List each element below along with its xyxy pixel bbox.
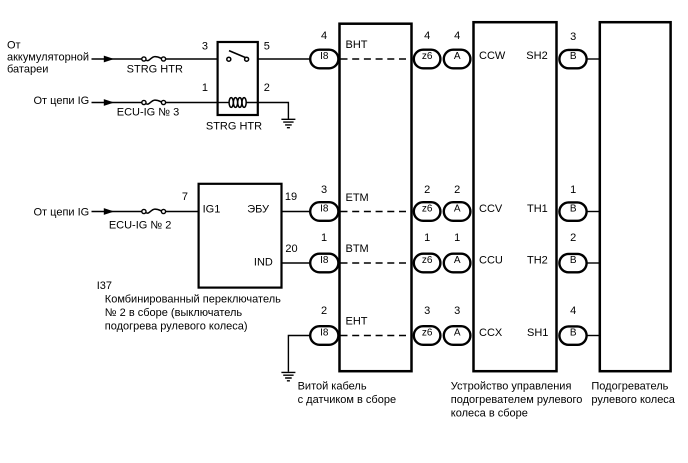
wire: fuse ECU-IG No3 to relay pin 1 xyxy=(166,102,217,104)
wire: fuse ECU-IG No2 to switch pin 7 xyxy=(166,211,199,213)
svg-text:подогревателем рулевого: подогревателем рулевого xyxy=(451,394,583,406)
node: battery feed label xyxy=(7,39,89,75)
wire: IG feed to fuse ECU-IG No2 xyxy=(92,211,142,213)
svg-text:19: 19 xyxy=(285,191,297,203)
svg-text:TH1: TH1 xyxy=(527,203,548,215)
svg-text:1: 1 xyxy=(202,82,208,94)
connector I8 pin 1 xyxy=(310,254,338,273)
svg-text:CCV: CCV xyxy=(479,203,503,215)
svg-text:2: 2 xyxy=(454,184,460,196)
box: twisted cable with sensor assembly xyxy=(340,24,412,372)
wire: switch pin 19 to connector I8 pin 3 xyxy=(282,211,310,213)
connector I8 pin 3 xyxy=(310,202,338,221)
svg-text:1: 1 xyxy=(424,232,430,244)
svg-text:I8: I8 xyxy=(320,328,329,339)
svg-text:B: B xyxy=(570,204,577,215)
label: twisted cable caption xyxy=(298,380,397,406)
fuse STRG HTR xyxy=(142,57,166,62)
svg-text:SH2: SH2 xyxy=(526,50,547,62)
label: combination switch caption xyxy=(105,293,281,332)
svg-text:z6: z6 xyxy=(422,51,433,62)
wire: B pin2 to heater box xyxy=(588,262,600,264)
svg-text:Устройство управления: Устройство управления xyxy=(451,381,572,393)
svg-text:z6: z6 xyxy=(422,204,433,215)
svg-text:CCW: CCW xyxy=(479,50,506,62)
connector I8 pin 2 xyxy=(310,326,338,345)
connector B pin 1 xyxy=(559,202,586,220)
wire: coil row inside relay xyxy=(217,102,229,104)
svg-text:№ 2 в сборе (выключатель: № 2 в сборе (выключатель xyxy=(105,307,243,319)
connector z6 pin 4 xyxy=(414,50,441,69)
svg-text:3: 3 xyxy=(454,305,460,317)
svg-text:BHT: BHT xyxy=(346,39,368,51)
svg-text:I37: I37 xyxy=(97,280,112,292)
connector A pin 4 xyxy=(444,50,471,69)
connector B pin 2 xyxy=(559,254,586,272)
svg-text:1: 1 xyxy=(321,232,327,244)
connector z6 pin 2 xyxy=(414,202,441,221)
arrow: IG feed direction xyxy=(104,208,114,215)
wire: ground to connector I8 pin 2 xyxy=(288,336,310,372)
wire: switch pin 20 to connector I8 pin 1 xyxy=(282,262,310,264)
svg-text:I8: I8 xyxy=(320,51,329,62)
svg-text:B: B xyxy=(570,51,577,62)
svg-text:B: B xyxy=(570,328,577,339)
svg-text:4: 4 xyxy=(570,305,576,317)
connector A pin 2 xyxy=(444,202,471,221)
fuse ECU-IG No2 xyxy=(142,209,166,214)
svg-text:подогрева рулевого колеса): подогрева рулевого колеса) xyxy=(105,320,248,332)
svg-text:CCU: CCU xyxy=(479,255,503,267)
wire: IG feed to fuse ECU-IG No3 xyxy=(92,102,142,104)
svg-text:От цепи IG: От цепи IG xyxy=(34,206,90,218)
connector A pin 3 xyxy=(444,326,471,345)
wire: B pin4 to heater box xyxy=(588,335,600,337)
svg-text:I8: I8 xyxy=(320,204,329,215)
arrow: battery feed direction xyxy=(104,56,114,63)
svg-text:z6: z6 xyxy=(422,255,433,266)
svg-text:7: 7 xyxy=(182,191,188,203)
svg-text:IND: IND xyxy=(254,256,273,268)
connector I8 pin 4 xyxy=(310,50,338,69)
svg-text:рулевого колеса: рулевого колеса xyxy=(591,394,675,406)
svg-text:TH2: TH2 xyxy=(527,255,548,267)
svg-text:B: B xyxy=(570,255,577,266)
svg-text:IG1: IG1 xyxy=(203,204,221,216)
svg-text:ETM: ETM xyxy=(346,192,369,204)
svg-text:2: 2 xyxy=(264,82,270,94)
svg-text:A: A xyxy=(454,255,461,266)
wire: EHT dashed (twisted cable) xyxy=(341,335,413,337)
label: control unit caption xyxy=(451,381,583,420)
svg-text:I8: I8 xyxy=(320,255,329,266)
svg-text:4: 4 xyxy=(321,30,327,42)
wire: relay pin 2 to ground xyxy=(246,103,289,119)
coil (relay winding) xyxy=(229,98,246,108)
connector z6 pin 3 xyxy=(414,326,441,345)
box: steering wheel heater xyxy=(600,22,671,371)
svg-text:3: 3 xyxy=(321,184,327,196)
svg-text:EHT: EHT xyxy=(346,316,368,328)
wire: relay pin 5 to connector I8 pin 4 xyxy=(258,58,310,60)
box: steering heater control unit assembly xyxy=(474,22,557,371)
switch contact (relay) xyxy=(227,51,249,62)
connector A pin 1 xyxy=(444,254,471,273)
svg-text:STRG HTR: STRG HTR xyxy=(206,121,262,133)
svg-text:A: A xyxy=(454,204,461,215)
svg-text:ECU-IG № 2: ECU-IG № 2 xyxy=(109,219,172,231)
svg-text:STRG HTR: STRG HTR xyxy=(127,64,183,76)
svg-text:ECU-IG № 3: ECU-IG № 3 xyxy=(117,107,180,119)
svg-text:20: 20 xyxy=(285,243,297,255)
ground (EHT shield) xyxy=(281,372,295,380)
svg-text:Витой кабель: Витой кабель xyxy=(298,380,367,392)
connector B pin 3 xyxy=(559,50,586,68)
svg-text:От цепи IG: От цепи IG xyxy=(34,95,90,107)
wire: B pin1 to heater box xyxy=(588,211,600,213)
wire: battery feed to fuse STRG HTR xyxy=(92,58,142,60)
svg-text:1: 1 xyxy=(570,184,576,196)
svg-text:Подогреватель: Подогреватель xyxy=(591,381,668,393)
svg-text:3: 3 xyxy=(202,41,208,53)
svg-text:2: 2 xyxy=(424,184,430,196)
label: heater caption xyxy=(591,381,675,407)
svg-text:3: 3 xyxy=(424,305,430,317)
svg-text:5: 5 xyxy=(264,41,270,53)
wire: ETM dashed (twisted cable) xyxy=(341,211,413,213)
svg-text:аккумуляторной: аккумуляторной xyxy=(7,51,89,63)
switch I37 (combination switch box) xyxy=(199,184,282,288)
svg-text:Комбинированный переключатель: Комбинированный переключатель xyxy=(105,293,281,305)
svg-text:z6: z6 xyxy=(422,328,433,339)
svg-text:От: От xyxy=(7,39,21,51)
svg-text:1: 1 xyxy=(454,232,460,244)
arrow: IG feed direction xyxy=(104,99,114,106)
svg-text:4: 4 xyxy=(454,30,460,42)
svg-text:A: A xyxy=(454,51,461,62)
connector z6 pin 1 xyxy=(414,254,441,273)
svg-text:CCX: CCX xyxy=(479,327,503,339)
svg-text:с датчиком в сборе: с датчиком в сборе xyxy=(298,394,397,406)
svg-text:ЭБУ: ЭБУ xyxy=(247,204,270,216)
svg-text:3: 3 xyxy=(570,31,576,43)
svg-text:A: A xyxy=(454,328,461,339)
svg-text:колеса в сборе: колеса в сборе xyxy=(451,408,528,420)
svg-text:4: 4 xyxy=(424,30,430,42)
fuse ECU-IG No3 xyxy=(142,100,166,105)
wire: fuse STRG HTR to relay pin 3 xyxy=(166,58,217,60)
wire: BTM dashed (twisted cable) xyxy=(341,262,413,264)
svg-text:2: 2 xyxy=(321,305,327,317)
ground (relay coil) xyxy=(281,119,295,127)
svg-text:BTM: BTM xyxy=(346,243,369,255)
wire: B pin3 to heater box xyxy=(588,58,600,60)
relay STRG HTR xyxy=(218,42,258,115)
connector B pin 4 xyxy=(559,326,586,344)
svg-text:батареи: батареи xyxy=(7,63,48,75)
svg-text:SH1: SH1 xyxy=(527,327,548,339)
svg-text:2: 2 xyxy=(570,232,576,244)
wire: BHT dashed (twisted cable) xyxy=(341,58,413,60)
